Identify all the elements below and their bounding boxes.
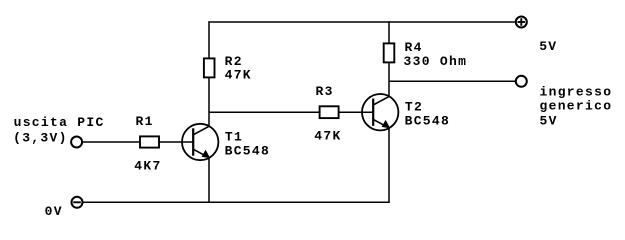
transistor T1 — [182, 124, 218, 160]
svg-text:BC548: BC548 — [405, 113, 451, 128]
resistor R3 — [320, 106, 339, 118]
wire R1 to T1 base — [159, 141, 194, 143]
wire top supply rail — [209, 21, 516, 23]
wire bottom ground rail — [83, 201, 390, 203]
svg-text:R4: R4 — [405, 40, 423, 55]
terminal ingresso generico — [516, 76, 527, 87]
svg-text:5V: 5V — [540, 114, 558, 129]
wire from top rail down to R4 — [388, 21, 390, 43]
resistor R2 — [204, 58, 215, 77]
svg-text:generico: generico — [540, 99, 613, 114]
svg-text:BC548: BC548 — [225, 143, 271, 158]
svg-text:5V: 5V — [539, 39, 557, 54]
svg-text:ingresso: ingresso — [540, 85, 613, 100]
wire T1 emitter to ground rail — [208, 158, 210, 203]
wire T2 emitter to ground rail — [388, 128, 390, 203]
svg-text:0V: 0V — [45, 204, 63, 219]
svg-text:4K7: 4K7 — [134, 158, 161, 173]
wire from top rail down to R2 — [208, 21, 210, 58]
transistor T2 — [362, 94, 398, 130]
svg-text:uscita PIC: uscita PIC — [14, 115, 105, 130]
svg-text:R3: R3 — [316, 84, 334, 99]
terminal 0V — [72, 197, 83, 208]
wire uscita terminal to R1 — [82, 141, 140, 143]
svg-text:(3,3V): (3,3V) — [13, 131, 68, 146]
svg-text:R1: R1 — [136, 114, 154, 129]
node T2 collector branch / wire to ingresso terminal — [389, 80, 516, 82]
wire R4 to T2 collector node — [388, 62, 390, 96]
resistor R1 — [140, 136, 159, 147]
resistor R4 — [384, 43, 395, 62]
wire R3 to T2 base — [339, 111, 374, 113]
terminal + 5V — [516, 17, 527, 28]
svg-text:47K: 47K — [225, 68, 252, 83]
svg-text:47K: 47K — [314, 128, 341, 143]
wire R2 to T1 collector node — [208, 77, 210, 126]
terminal uscita PIC — [71, 137, 82, 148]
svg-text:330 Ohm: 330 Ohm — [404, 54, 468, 69]
node T1 collector branch / wire to R3 — [209, 111, 320, 113]
